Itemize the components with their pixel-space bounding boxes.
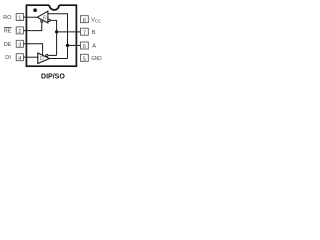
pin 1 indicator dot — [33, 8, 37, 12]
pin 7 box — [81, 28, 89, 35]
svg-text:8: 8 — [83, 18, 86, 24]
pin 2 box — [16, 27, 23, 34]
receiver input B bubble — [48, 19, 50, 21]
svg-text:DE: DE — [4, 42, 12, 48]
junction node A — [66, 44, 69, 47]
background — [0, 0, 120, 91]
svg-text:DIP/SO: DIP/SO — [41, 73, 65, 80]
pin 4 box — [16, 54, 23, 61]
driver output A wire — [50, 58, 68, 60]
svg-text:6: 6 — [83, 44, 86, 50]
svg-text:VCC: VCC — [91, 18, 101, 24]
svg-text:GND: GND — [91, 56, 101, 62]
svg-text:1: 1 — [18, 16, 21, 22]
receiver input B wire — [50, 20, 56, 55]
receiver input A wire (top) — [48, 14, 68, 59]
svg-text:RE: RE — [4, 28, 12, 34]
receiver triangle R — [37, 11, 48, 23]
driver output B bubble — [46, 54, 48, 56]
svg-text:7: 7 — [83, 30, 86, 36]
receiver enable bubble — [41, 20, 43, 22]
pin 1 box — [16, 14, 23, 21]
svg-text:5: 5 — [83, 57, 86, 63]
wire B net to pin 7 — [57, 31, 81, 33]
junction node B — [55, 30, 58, 33]
package notch — [49, 4, 59, 6]
svg-text:4: 4 — [18, 56, 21, 62]
wire RO pin1 to receiver output — [23, 16, 37, 18]
wire DI pin4 to driver input — [23, 56, 37, 58]
svg-text:B: B — [92, 30, 96, 36]
pin 5 box — [81, 54, 89, 61]
pin 3 box — [16, 40, 23, 47]
pin 6 box — [81, 42, 89, 49]
svg-text:R: R — [43, 15, 47, 21]
svg-text:2: 2 — [18, 29, 21, 35]
IC package body U1 — [26, 5, 76, 66]
svg-text:3: 3 — [18, 43, 21, 49]
svg-text:DI: DI — [5, 55, 11, 61]
driver triangle D — [38, 53, 50, 64]
svg-text:A: A — [92, 44, 96, 50]
wire A net to pin 6 — [68, 44, 81, 46]
wire bubble to B net — [48, 54, 57, 56]
wire RE pin2 to receiver enable — [23, 22, 41, 30]
svg-text:D: D — [40, 56, 44, 62]
pin 8 box — [81, 16, 89, 23]
svg-text:RO: RO — [3, 15, 12, 21]
wire DE pin3 to driver enable — [23, 44, 42, 56]
